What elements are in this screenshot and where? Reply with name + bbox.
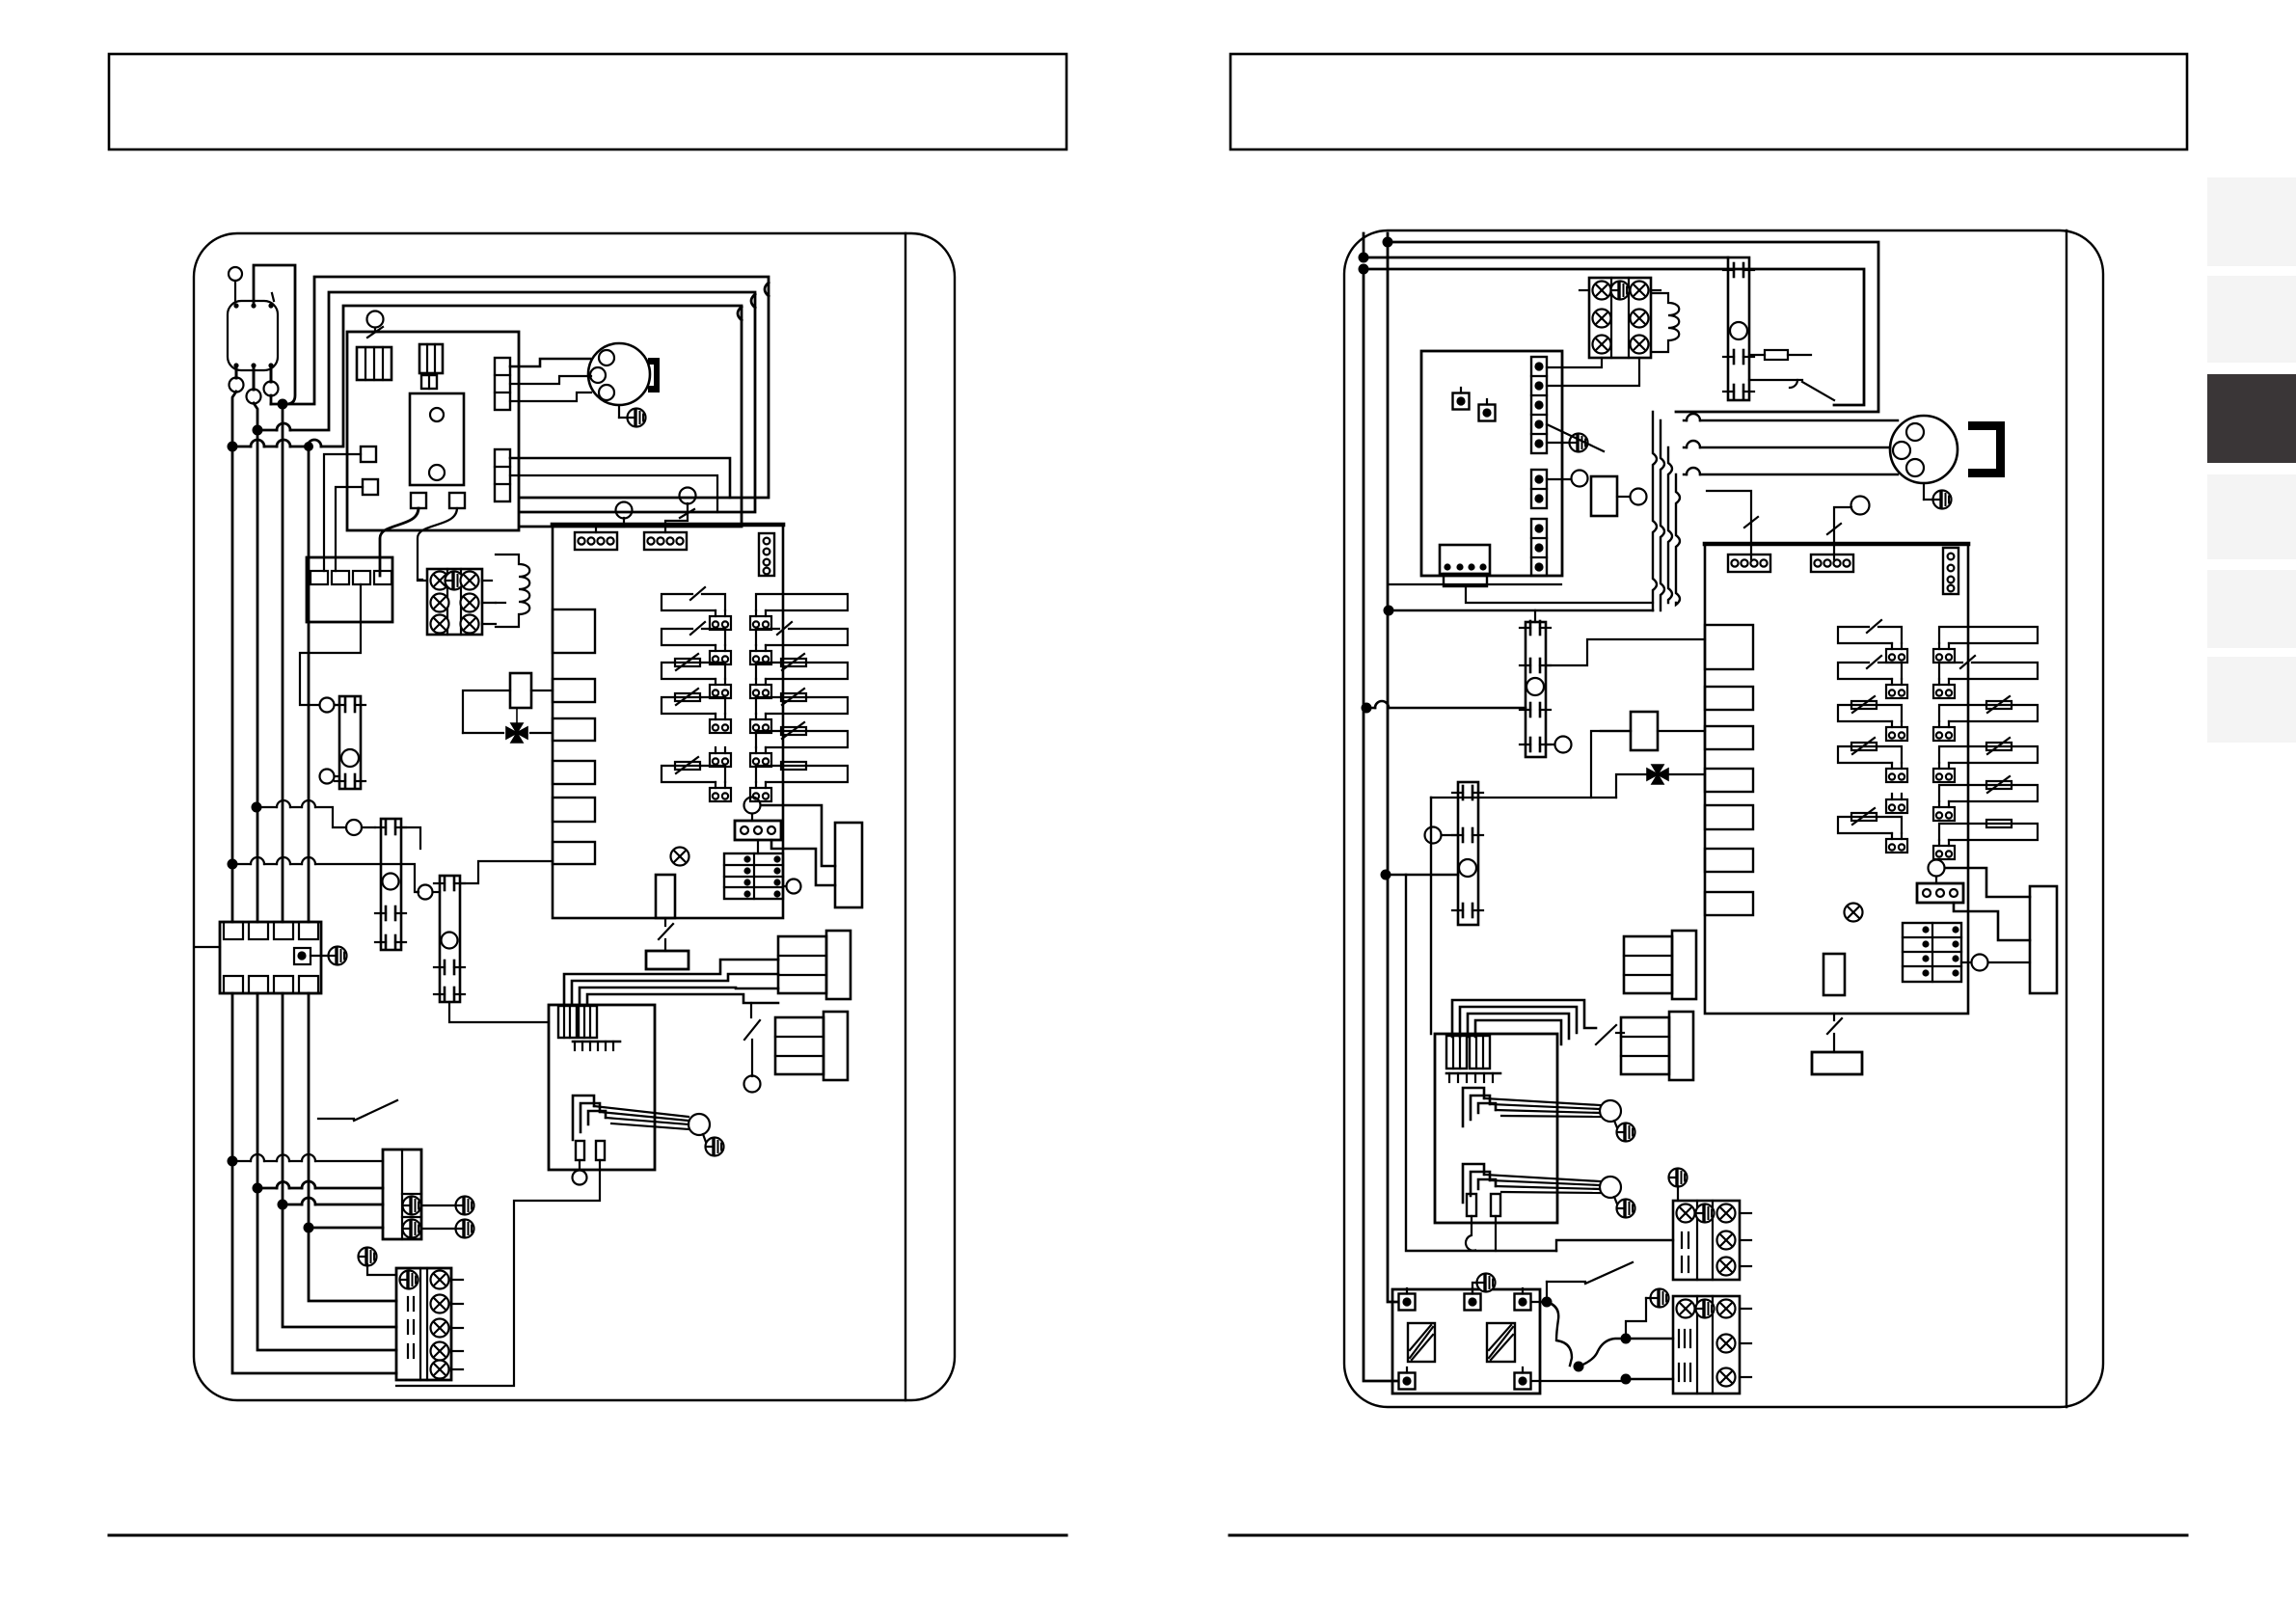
ground G24 — [1614, 1197, 1635, 1218]
wire sq-b feed — [336, 487, 363, 571]
hop F3 — [1687, 468, 1700, 474]
electrode wires — [594, 1106, 689, 1129]
node R9 — [1621, 1334, 1632, 1344]
relay contact row1 R — [1933, 627, 2038, 663]
wire N4 right — [309, 1227, 383, 1230]
ground G2 — [703, 1134, 724, 1156]
aux box B21 — [1601, 712, 1705, 750]
X26 sq 2 — [1465, 1288, 1481, 1311]
left page inner divider — [905, 233, 906, 1400]
hop M1b1 — [251, 857, 264, 864]
bus wire x1439 — [1388, 247, 1399, 1302]
lamp H21 — [1845, 904, 1863, 922]
spark plug B — [1600, 1177, 1621, 1198]
bracket mark — [648, 358, 660, 392]
node R5 — [1362, 703, 1372, 714]
connector J24 vertical — [1943, 548, 1958, 594]
pump M2 lower lead — [320, 770, 340, 784]
hop L3b — [277, 440, 290, 447]
thermistor row3 right — [750, 654, 848, 698]
curl wire 1 — [1547, 1302, 1572, 1366]
thermistor row3 R — [1933, 696, 2038, 741]
wire TB1 feed — [1556, 1240, 1673, 1251]
link matrix X25 — [1903, 923, 1961, 982]
node L4 — [304, 442, 313, 451]
node R3 — [1359, 264, 1369, 275]
wire X22 to X21 b — [1547, 358, 1639, 386]
mains plug P1 — [228, 267, 279, 404]
relay contact row1 L — [1838, 620, 1907, 663]
transformer T1 — [357, 347, 392, 380]
pin 2a circle — [1466, 1216, 1475, 1251]
wire loop RA — [1388, 242, 1878, 412]
comb electrode — [573, 1042, 620, 1050]
fuse F1 — [646, 951, 689, 969]
ignition transformer T2b — [579, 1006, 597, 1038]
node L1 — [278, 399, 288, 410]
wire X10 to fan 2 — [510, 376, 591, 384]
side tab 5 — [2207, 570, 2296, 648]
terminal block X28 — [1673, 1296, 1751, 1394]
terminal strip X3 — [418, 569, 496, 635]
wire J25 to driver — [1945, 868, 2030, 940]
connector X11 stack — [495, 449, 510, 501]
fuse F21 switch — [1827, 1014, 1842, 1052]
M23 side circle — [1546, 737, 1572, 753]
wire R5 — [1366, 707, 1526, 710]
node N1 — [228, 1156, 238, 1167]
fuse F21 holder — [1823, 954, 1845, 995]
hop M1a2 — [302, 800, 315, 807]
node N2 — [253, 1183, 263, 1194]
fuse F1 switch — [659, 918, 673, 951]
jog loopC — [738, 307, 742, 320]
main pcb A2 — [553, 525, 783, 918]
relay K21 — [1547, 471, 1647, 517]
lamp H1 — [671, 848, 689, 866]
pump M23 — [1520, 621, 1551, 757]
flame pin 2b — [1491, 1194, 1500, 1216]
X26 sq 5 — [1515, 1367, 1531, 1390]
wire fan 1 — [1684, 420, 1898, 421]
user terminal X7 — [396, 1268, 463, 1380]
ground G21 — [1547, 434, 1588, 452]
thermistor row5 R — [1933, 776, 2038, 821]
heat blocks HB22 — [1621, 1012, 1693, 1080]
wire fan 3 — [1684, 474, 1898, 475]
wire J4 to relay box — [758, 805, 835, 885]
connector J4 — [735, 821, 781, 840]
control box A1 — [347, 332, 519, 530]
pcb tab 6 — [553, 842, 595, 864]
fan/burner unit M22 — [1890, 416, 1958, 483]
M23 top circle — [1534, 610, 1536, 622]
wire J21 down — [1466, 586, 1653, 603]
wire X10 to fan 3 — [510, 392, 591, 401]
bus wire below X5 x241 — [232, 993, 396, 1373]
3-way valve V21 — [1647, 765, 1668, 784]
connector col X23 — [1531, 470, 1547, 508]
terminal sq a — [361, 447, 376, 462]
ignition transformer T22a — [1446, 1036, 1467, 1069]
wire R6 — [1386, 874, 1458, 877]
hop M1b3 — [302, 857, 315, 864]
pcb tab r5 — [1705, 805, 1753, 829]
pin 2b wire — [1495, 1216, 1497, 1251]
wire X2 tab3 down — [300, 584, 361, 705]
hop N1c — [302, 1154, 315, 1161]
connector col X24 — [1531, 519, 1547, 576]
node R1 — [1383, 237, 1393, 248]
heat blocks HB2 — [775, 1012, 848, 1080]
connector X10 stack — [495, 358, 510, 410]
side tab 1 — [2207, 177, 2296, 266]
sensor sq b — [1479, 399, 1496, 421]
wire R10 — [1626, 1378, 1673, 1380]
J2 probe circle — [665, 488, 696, 533]
jumper row5 L2 — [1886, 794, 1907, 813]
wire sq-a feed — [324, 454, 361, 571]
fuse F21 — [1812, 1052, 1862, 1074]
connector J25 — [1917, 883, 1963, 903]
connector col X22 — [1531, 357, 1547, 453]
wire sq-c down — [380, 508, 419, 576]
spark plug — [689, 1114, 710, 1135]
boiler outline left page — [194, 233, 955, 1400]
relay RL coil — [744, 798, 761, 822]
node M1a — [252, 802, 262, 813]
thermistor row3 left — [662, 654, 731, 698]
header box left — [109, 54, 1067, 149]
heat blocks HB1 — [778, 931, 851, 999]
spark plug A — [1600, 1100, 1621, 1122]
thermistor row3 L — [1838, 696, 1907, 741]
link matrix X4 — [724, 853, 783, 899]
wire N3 right — [283, 1204, 383, 1206]
side tab 3 (active, dark) — [2207, 374, 2296, 463]
node R6 — [1381, 870, 1391, 880]
S2 circle — [744, 1076, 761, 1093]
wire top stubs — [1364, 233, 1388, 257]
hop L2 — [277, 423, 290, 430]
switch S21 — [1749, 380, 1834, 400]
wire valve right — [530, 732, 553, 734]
ground G3 — [311, 947, 347, 965]
node N3 — [278, 1200, 288, 1210]
wire B1 right — [531, 690, 553, 691]
fuse F1 holder — [656, 875, 675, 918]
relay contact row2 right — [750, 622, 848, 664]
earth lead E1 — [421, 1197, 474, 1215]
pcb tab r7 — [1705, 892, 1753, 915]
bus wire below X5 x294 — [283, 993, 396, 1327]
spark electrode assy B — [1463, 1164, 1496, 1203]
right page inner divider — [2066, 230, 2067, 1407]
wire X26 out — [1531, 1302, 1626, 1381]
wire under control box — [1389, 583, 1561, 585]
bus wire down x320 — [308, 451, 311, 922]
hop N2a — [277, 1182, 289, 1189]
side tab 2 — [2207, 276, 2296, 363]
ground G25 — [1472, 1274, 1496, 1294]
wire coil feed — [496, 602, 505, 604]
wire bus A down — [1406, 875, 1556, 1251]
connector J22 — [1728, 555, 1770, 572]
bracket mark right — [1968, 421, 2005, 477]
relay contact row2 L — [1838, 656, 1907, 698]
ground G27 — [1626, 1289, 1669, 1340]
pcb tab 3 — [553, 718, 595, 741]
pump M4 circle lead — [419, 885, 441, 900]
3-way valve V1 — [506, 708, 527, 743]
wire X22 to X21 a — [1547, 358, 1602, 367]
X26 sq 1 — [1399, 1288, 1416, 1311]
bus wire down x294 — [282, 409, 284, 922]
footer rule left — [109, 1534, 1067, 1537]
pcb tab 1 — [553, 609, 595, 653]
wire N1 right — [232, 1160, 383, 1162]
wire plug top loop — [254, 265, 295, 404]
wire R4 — [1389, 609, 1653, 612]
bus wire below X5 x267 — [257, 993, 396, 1350]
sense circle — [783, 880, 801, 894]
wire X10 to fan 1 — [510, 359, 590, 366]
thermistor row4 L — [1838, 738, 1907, 782]
sense circle R — [1961, 955, 2030, 971]
pcb tab 5 — [553, 798, 595, 822]
relay contact row2 R — [1933, 656, 2038, 698]
wire M1b to pump M4 — [232, 864, 419, 892]
resistor row6 right — [750, 762, 848, 801]
wire sq-d down — [418, 508, 457, 580]
hop N1a — [251, 1154, 264, 1161]
switch S1 on box top — [367, 311, 384, 338]
hop M1a1 — [277, 800, 290, 807]
flame pin 2a — [1467, 1194, 1476, 1216]
aux box B1 — [510, 673, 531, 708]
pump M21 — [1723, 257, 1754, 400]
terminal sq d — [449, 493, 465, 508]
ignition unit A23 — [1435, 1034, 1557, 1223]
node R7 — [1542, 1297, 1553, 1308]
squiggle harness — [1653, 412, 1680, 610]
low volt box X2 — [307, 557, 392, 622]
curl wire 2 — [1579, 1339, 1673, 1367]
pcb tab 4 — [553, 761, 595, 784]
thermistor row4 left — [662, 689, 731, 733]
wire X5 to chassis — [196, 946, 220, 948]
pin b wire — [396, 1160, 600, 1386]
wire B1 left — [463, 690, 510, 733]
connector J3 vertical — [759, 533, 774, 576]
thermistor row4 R — [1933, 738, 2038, 782]
heat blocks HB21 — [1624, 931, 1696, 999]
wire valve left — [463, 732, 503, 734]
wire RB to pump — [1364, 257, 1728, 259]
node L3 — [228, 442, 238, 452]
earth lead E2 — [421, 1220, 474, 1238]
ground G4 — [359, 1248, 397, 1276]
node R10 — [1621, 1374, 1632, 1385]
switch S3 — [318, 1100, 397, 1121]
thermistor row5 right — [750, 722, 848, 767]
resistor R21 — [1749, 350, 1811, 360]
junction box X5 — [220, 922, 321, 993]
X26 sq 3 — [1515, 1288, 1531, 1311]
hop L3a — [251, 440, 264, 447]
hop L3c — [308, 440, 321, 447]
relay contact row1 right — [750, 594, 848, 630]
wire fan 2 — [1684, 447, 1890, 448]
bus wire x1414 — [1364, 274, 1399, 1381]
node N4 — [304, 1223, 314, 1233]
spark electrode assy A — [1463, 1088, 1496, 1126]
ignition unit A3 — [549, 1005, 655, 1170]
wire N2 right — [257, 1187, 383, 1190]
header box right — [1230, 54, 2187, 149]
resistor row6 R — [1933, 820, 2038, 859]
ignition transformer T22b — [1470, 1036, 1490, 1069]
wire bus B down — [1430, 798, 1432, 1034]
thermistor row6 L — [1838, 808, 1907, 853]
wire loop A — [271, 277, 769, 498]
pump M24 — [1452, 782, 1483, 925]
J22 probe — [1707, 491, 1758, 559]
jumper row5 left — [710, 747, 731, 767]
main pcb A22 — [1705, 544, 1968, 1014]
wire plug pins down — [232, 392, 271, 442]
wire X11 right 2 — [510, 475, 717, 512]
bus wire down x267 — [257, 435, 259, 922]
bus wire below X5 x320 — [309, 993, 396, 1301]
switch S2 — [744, 1003, 760, 1076]
wire M1a to pump M3 — [257, 807, 346, 827]
side tab 4 — [2207, 474, 2296, 559]
relay RL2 coil — [1929, 860, 1945, 884]
electrode wires B — [1484, 1175, 1600, 1193]
switch S24 — [1596, 1025, 1624, 1044]
pcb tab r1 — [1705, 625, 1753, 669]
hop N3a — [302, 1198, 315, 1204]
junction box X26 — [1392, 1289, 1540, 1394]
wire harness W21 — [1452, 1000, 1596, 1044]
wire diag — [1547, 424, 1604, 451]
connector J21 — [1440, 545, 1490, 586]
flame pin b — [596, 1141, 605, 1160]
spark electrode assy — [573, 1096, 606, 1140]
node R2 — [1359, 253, 1369, 263]
ground G26 — [1669, 1169, 1688, 1202]
ground G23 — [1614, 1121, 1635, 1142]
driver block Q1 — [835, 823, 862, 907]
node R4 — [1384, 606, 1394, 616]
terminal sq b — [363, 479, 378, 495]
pcb tab r6 — [1705, 849, 1753, 872]
pump M2 circle lead — [320, 698, 340, 713]
terminal sq c — [411, 493, 426, 508]
J1 probe circle — [596, 502, 633, 533]
connector J23 — [1811, 555, 1853, 572]
side tab 6 — [2207, 657, 2296, 743]
thermistor row4 right — [750, 689, 848, 733]
wire M3 out — [401, 827, 420, 849]
electrode wires A — [1484, 1098, 1600, 1117]
pcb tab r4 — [1705, 769, 1753, 792]
choke coil L5 — [496, 555, 529, 627]
node M1b — [228, 859, 238, 870]
relay contact row1 left — [662, 587, 731, 630]
pin a circle — [573, 1160, 587, 1185]
comb electrode 2 — [1446, 1073, 1500, 1082]
control box A21 — [1421, 351, 1562, 576]
hop N1b — [277, 1155, 289, 1162]
sensor sq a — [1453, 388, 1470, 410]
terminal block X27 — [1673, 1201, 1751, 1280]
hop R5 — [1375, 701, 1389, 708]
X26 sq 4 — [1399, 1367, 1416, 1390]
hop M1b2 — [277, 857, 290, 864]
wire X11 right 1 — [510, 458, 730, 498]
ignition transformer T2a — [558, 1006, 577, 1038]
flame pin a — [576, 1141, 584, 1160]
terminal strip X21 — [1580, 278, 1661, 358]
jog loopB — [751, 294, 755, 308]
ground G22 — [1924, 483, 1952, 509]
jog loopA — [765, 283, 769, 296]
hop F1 — [1687, 414, 1700, 420]
boiler outline right page — [1344, 230, 2103, 1407]
fan/burner unit M1 — [588, 343, 650, 405]
choke coil L21 — [1651, 293, 1679, 352]
wire M23 pin2 to pcb — [1546, 639, 1705, 665]
hop N2b — [302, 1181, 315, 1188]
hop F2 — [1687, 441, 1700, 447]
J23 probe — [1827, 497, 1870, 560]
node R8 — [1574, 1362, 1584, 1372]
wire harness W1 — [564, 960, 778, 1005]
pump M2 — [335, 696, 365, 789]
relay K2 — [421, 375, 437, 389]
wire loop B — [257, 292, 755, 512]
pump M4 — [434, 876, 465, 1002]
connector J2 — [644, 532, 687, 550]
pump M3 circle lead — [346, 820, 375, 835]
pcb tab r2 — [1705, 687, 1753, 710]
pump M3 — [375, 819, 406, 950]
wire M4 down — [449, 1002, 549, 1022]
thermistor row6 left — [662, 757, 731, 801]
connector J1 — [575, 532, 617, 550]
node L2 — [253, 425, 263, 436]
wire RC — [1364, 269, 1864, 405]
relay K3 body — [410, 393, 464, 485]
relay K1 — [419, 344, 443, 373]
pcb tab 2 — [553, 679, 595, 702]
ground G1 — [619, 405, 646, 427]
mains terminal X6 — [383, 1150, 421, 1239]
wire valve21 — [1431, 731, 1705, 798]
wire loop C — [232, 306, 742, 527]
relay contact row2 left — [662, 622, 731, 664]
driver block Q21 — [2030, 886, 2057, 993]
M24 circle lead — [1425, 827, 1459, 844]
bus wire down x241 — [231, 451, 234, 922]
footer rule right — [1229, 1534, 2187, 1537]
wire M4 out — [460, 861, 553, 883]
switch S23 — [1547, 1262, 1633, 1297]
pcb tab r3 — [1705, 726, 1753, 749]
